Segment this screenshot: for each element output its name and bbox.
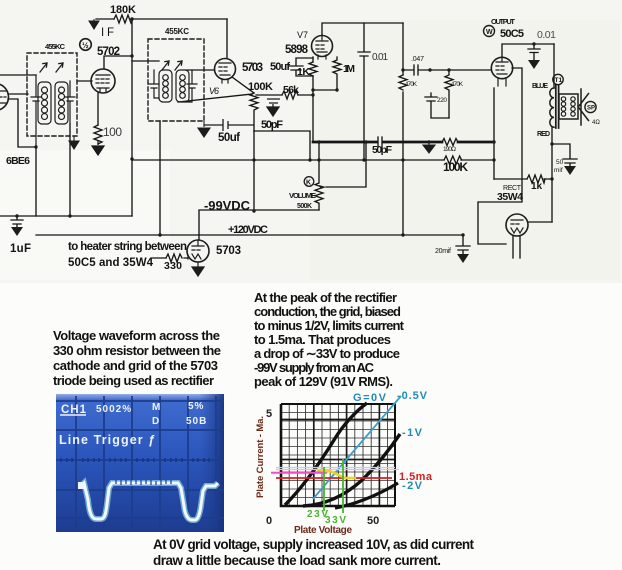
svg-text:50B: 50B: [186, 416, 207, 427]
trimmer arrow IF2 secondary: [175, 61, 182, 70]
svg-text:50C5 and 35W4: 50C5 and 35W4: [68, 257, 154, 269]
svg-text:50pF: 50pF: [261, 119, 283, 131]
wire thick detector line: [313, 141, 494, 144]
curve -2V: [335, 483, 398, 508]
svg-text:BLUE: BLUE: [532, 83, 548, 90]
svg-text:M: M: [152, 402, 160, 413]
wire box bottom: [254, 131, 310, 160]
svg-text:4Ω: 4Ω: [592, 120, 600, 126]
svg-text:0.01: 0.01: [372, 52, 388, 63]
IF transformer T-IF1 shield (dashed box): [27, 53, 77, 136]
wire node to B- bus: [35, 147, 37, 216]
svg-text:5898: 5898: [285, 44, 309, 56]
resistor 1k: [527, 175, 545, 183]
resistor 100: [94, 125, 102, 144]
svg-text:470K: 470K: [451, 82, 463, 88]
svg-text:190Ω: 190Ω: [443, 146, 456, 153]
node marker W circled: [484, 26, 495, 37]
svg-text:V6: V6: [209, 86, 219, 96]
svg-text:50uf: 50uf: [218, 132, 240, 144]
tube V6 5703 det: [215, 59, 236, 80]
capacitor 1uF: [11, 216, 23, 227]
line red 1.5ma: [276, 477, 392, 479]
IF transformer T-IF2 shield (dashed box): [148, 39, 204, 121]
wire 6BE6 grid: [8, 93, 28, 95]
svg-text:500K: 500K: [297, 203, 312, 210]
wire IF1 secondary return: [69, 124, 71, 216]
wire 6BE6 cathode down: [8, 99, 36, 147]
transformer T1 core: [556, 85, 559, 128]
svg-text:to 1.5ma. That produces: to 1.5ma. That produces: [254, 332, 391, 347]
capacitor IF1 secondary trimmer: [65, 81, 75, 124]
svg-text:50: 50: [556, 159, 564, 166]
speaker SP bar and cone: [579, 89, 589, 125]
svg-text:1.5ma: 1.5ma: [399, 471, 433, 483]
svg-text:.047: .047: [411, 56, 424, 63]
resistor 56k: [282, 91, 298, 99]
line yellow: [317, 470, 356, 478]
waveform glow: [80, 483, 218, 520]
ground arrow below output 0.01: [528, 60, 540, 69]
node marker K circled volume: [304, 177, 314, 187]
svg-text:5703: 5703: [216, 245, 241, 257]
tube 5702 IF amp: [91, 69, 115, 93]
svg-text:to heater string between: to heater string between: [68, 241, 187, 253]
scope text row1: [59, 401, 207, 447]
ground arrow 1uF: [11, 227, 23, 236]
svg-text:½: ½: [82, 41, 89, 50]
tube 50C5 output: [491, 57, 512, 78]
wire B- bus left: [0, 215, 132, 217]
wire IF2 secondary bottom diagonal: [178, 94, 252, 102]
ground arrow IF1 AVC return: [69, 136, 79, 149]
waveform trace: [80, 483, 218, 520]
pin 5703 cathode to 330: [187, 255, 189, 259]
curve G=0V: [285, 403, 367, 505]
svg-text:5%: 5%: [188, 401, 204, 412]
wire 50C5 cathode riser: [493, 88, 495, 179]
ground arrow 50mif: [564, 166, 576, 175]
svg-text:1K: 1K: [297, 66, 310, 78]
wire IF1 secondary to 5702 grid: [77, 80, 92, 82]
node marker SP circled: [585, 101, 596, 112]
resistor 1K: [309, 62, 317, 76]
curve -0.5V blue: [313, 396, 401, 499]
trace baseline fuzz: [116, 480, 171, 485]
line faint cyan: [276, 467, 395, 469]
ground arrow 50pF detector: [267, 99, 280, 116]
capacitor 0.01 plate: [358, 23, 370, 160]
curve -1V: [303, 434, 400, 506]
caption right paragraph: [254, 290, 405, 389]
resistor 470K first: [399, 75, 407, 90]
wire +120VDC bus: [36, 234, 463, 236]
wire heater tap: [152, 257, 188, 259]
coil IF2 secondary: [176, 70, 189, 102]
capacitor 220: [425, 93, 449, 118]
trimmer arrow IF2 primary: [162, 61, 169, 70]
potentiometer 500K volume: [315, 142, 323, 210]
wire IF2 secondary to V6 grid: [186, 69, 214, 71]
svg-text:I F: I F: [101, 27, 114, 39]
wire V7 cathode chain: [312, 57, 314, 142]
svg-text:5703: 5703: [242, 62, 263, 74]
svg-text:CH1: CH1: [61, 404, 87, 416]
wire V6 grid riser: [226, 19, 228, 58]
svg-text:draw a little because the load: draw a little because the load sank more…: [153, 553, 441, 568]
svg-text:330 ohm resistor between the: 330 ohm resistor between the: [53, 343, 221, 358]
svg-text:-1V: -1V: [402, 427, 423, 439]
scan tint over schematic area: [0, 0, 622, 283]
svg-text:5: 5: [266, 408, 272, 420]
svg-text:W: W: [486, 29, 493, 36]
resistor 190ohm: [442, 139, 458, 146]
svg-text:Plate Voltage: Plate Voltage: [294, 525, 352, 536]
wire 50C5 plate: [502, 44, 554, 57]
svg-text:T1: T1: [555, 77, 563, 84]
line green 23V: [323, 467, 325, 511]
capacitor .047: [414, 65, 418, 75]
transformer T1 secondary winding box: [559, 94, 578, 119]
resistor 470K second: [445, 70, 453, 118]
resistor 100K grid-leak: [250, 93, 258, 131]
svg-text:220: 220: [437, 97, 447, 104]
svg-text:6BE6: 6BE6: [6, 155, 30, 167]
resistor 1M: [333, 57, 341, 90]
capacitor 50mif: [563, 159, 577, 166]
svg-text:1uF: 1uF: [10, 243, 31, 255]
svg-text:SP: SP: [587, 106, 595, 112]
svg-text:peak of 129V (91V RMS).: peak of 129V (91V RMS).: [254, 374, 393, 389]
ground arrow detector line junction: [423, 142, 435, 153]
svg-text:50uf: 50uf: [270, 61, 290, 73]
caption bottom paragraph: [153, 537, 474, 568]
wire to -99VDC: [199, 131, 319, 240]
resistor 330: [166, 254, 182, 262]
plate curves chart: [255, 390, 433, 536]
graticule vertical lines: [76, 396, 216, 531]
caption left paragraph: [53, 328, 221, 388]
capacitor 50uf coupling + wire: [204, 119, 254, 131]
ground arrow 20mif: [457, 254, 469, 263]
line magenta: [271, 472, 327, 474]
wire audio bus: [132, 159, 494, 161]
tube V7 5898 audio: [312, 36, 333, 57]
underline CH1: [60, 414, 86, 416]
svg-text:35W4: 35W4: [497, 191, 523, 203]
svg-text:50pF: 50pF: [372, 144, 393, 156]
wire V6 plate diagonal: [232, 77, 254, 93]
capacitor 50pF series: [378, 137, 382, 147]
node marker T1 circled: [553, 74, 563, 84]
svg-text:455KC: 455KC: [165, 27, 189, 36]
svg-text:to minus 1/2V, limits current: to minus 1/2V, limits current: [254, 318, 405, 333]
svg-text:OUTPUT: OUTPUT: [491, 17, 515, 26]
wire V7 plate top bus: [322, 23, 403, 35]
wire AVC bus top: [96, 18, 227, 20]
capacitor IF1 primary trimmer: [31, 75, 41, 147]
chart grid minor: [281, 404, 395, 506]
ground arrow AVC at 180K: [89, 19, 99, 29]
svg-text:0: 0: [266, 515, 272, 527]
wire 50mif branch: [552, 144, 570, 158]
chart frame: [281, 404, 395, 506]
wire 1k row: [494, 178, 552, 180]
wire .047 coupling row: [403, 69, 491, 71]
capacitor IF2 primary trimmer: [149, 70, 159, 98]
svg-text:D: D: [152, 416, 159, 427]
svg-text:180K: 180K: [110, 4, 136, 16]
line faint pink: [276, 469, 399, 471]
svg-text:At the peak of the rectifier: At the peak of the rectifier: [254, 290, 397, 305]
svg-text:50C5: 50C5: [500, 28, 524, 40]
transformer T1 output: primary coil: [550, 88, 554, 127]
coil IF2 primary: [159, 70, 172, 102]
svg-text:triode being used as rectifier: triode being used as rectifier: [53, 373, 214, 388]
svg-text:-99V supply from an AC: -99V supply from an AC: [254, 360, 375, 375]
wire 5702 cathode: [97, 93, 99, 125]
wire volume wiper: [326, 142, 366, 187]
tube 6BE6 converter (partial at left edge): [0, 84, 9, 111]
wire 35W4 plate: [528, 221, 552, 223]
svg-text:455KC: 455KC: [45, 42, 66, 51]
trace left blob: [78, 482, 84, 489]
resistor 100K series: [444, 156, 462, 164]
wire RED lead chain: [551, 127, 553, 222]
wiper arrow volume: [319, 185, 326, 189]
wire antenna input: [0, 74, 36, 76]
svg-text:K: K: [306, 180, 311, 187]
svg-text:-99VDC: -99VDC: [204, 198, 251, 213]
svg-text:mif: mif: [554, 167, 563, 174]
oscilloscope photo: [56, 394, 224, 532]
svg-text:0.01: 0.01: [537, 29, 556, 41]
svg-text:470K: 470K: [405, 82, 417, 88]
wire junction into IF2 primary: [132, 60, 159, 62]
svg-text:Voltage waveform across the: Voltage waveform across the: [53, 328, 220, 343]
svg-text:100K: 100K: [248, 81, 273, 93]
graticule horizontal lines: [56, 401, 224, 518]
svg-text:VOLUME: VOLUME: [289, 191, 316, 200]
capacitor 50uf bypass loop: [289, 58, 313, 76]
chart grid major: [281, 404, 395, 506]
tube 35W4 rectifier: [506, 214, 528, 236]
capacitor IF2 secondary trimmer: [186, 70, 197, 102]
tube 5703 bias rectifier: [187, 240, 209, 262]
pin 35W4 heater leads: [513, 236, 520, 258]
coil secondary left stack: [561, 97, 565, 116]
svg-text:20mif: 20mif: [435, 248, 451, 255]
svg-text:+120VDC: +120VDC: [228, 224, 268, 236]
capacitor 20mif: [456, 235, 470, 254]
svg-text:100: 100: [103, 125, 122, 139]
graticule ticks center: [61, 458, 209, 462]
trimmer arrow IF1 secondary: [56, 63, 63, 72]
wire 5702 plate to junction: [104, 56, 132, 69]
svg-text:cathode and grid of the 5703: cathode and grid of the 5703: [53, 358, 218, 373]
wire screen dropper riser: [402, 23, 404, 235]
line green 33V: [342, 459, 344, 513]
capacitor 0.01 output: [528, 44, 540, 53]
wire IF2 return to +120 bus: [159, 121, 161, 235]
svg-text:56k: 56k: [283, 84, 299, 96]
wire 1M bottom to cathode: [313, 89, 337, 91]
svg-text:1M: 1M: [343, 63, 355, 75]
ground arrow below 5702 100 ohm: [92, 141, 104, 155]
coil IF1 secondary: [55, 82, 68, 124]
svg-text:Line Trigger ƒ: Line Trigger ƒ: [59, 433, 156, 447]
svg-text:330: 330: [164, 260, 182, 272]
resistor 180K: [114, 15, 133, 23]
coil secondary right stack: [571, 97, 575, 116]
ground output cap: [533, 53, 535, 60]
trimmer arrow IF1 primary: [40, 63, 47, 72]
wire 56k row: [256, 94, 313, 96]
svg-text:Plate Current - Ma.: Plate Current - Ma.: [255, 416, 266, 498]
svg-text:1k: 1k: [531, 181, 542, 192]
svg-text:a drop of ∼33V to produce: a drop of ∼33V to produce: [254, 346, 400, 361]
ground arrow bias rectifier cathode: [192, 262, 204, 276]
wire vertical from 180K junction down to B- bus: [131, 19, 133, 216]
svg-text:100K: 100K: [443, 160, 468, 174]
svg-text:5002%: 5002%: [96, 404, 132, 415]
svg-text:-0.5V: -0.5V: [397, 390, 428, 402]
svg-text:RED: RED: [537, 131, 550, 138]
coil IF1 primary: [38, 82, 51, 124]
node marker half circled: [80, 39, 92, 51]
svg-text:50: 50: [367, 515, 379, 527]
ground arrow IF2 AVC return: [198, 121, 210, 137]
svg-text:V7: V7: [297, 30, 308, 40]
svg-text:conduction, the grid, biased: conduction, the grid, biased: [254, 304, 401, 319]
svg-text:At 0V grid voltage, supply inc: At 0V grid voltage, supply increased 10V…: [153, 537, 474, 552]
wire transformer primary lead: [553, 44, 555, 88]
wire 50C5 grid2 to rectifier: [478, 68, 522, 244]
svg-text:5702: 5702: [97, 46, 120, 58]
